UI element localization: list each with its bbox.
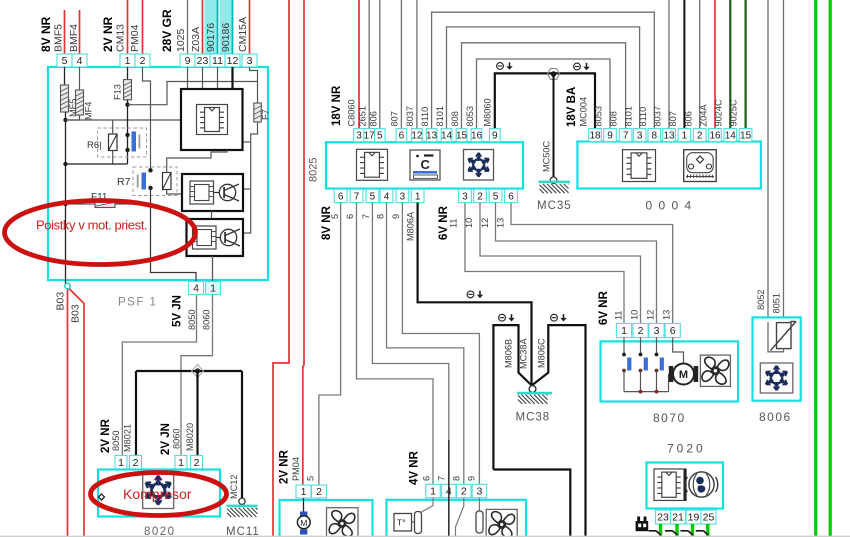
- wire pin2 to R7 contact: [143, 67, 151, 170]
- relay R6 dashed outline: [98, 128, 147, 157]
- svg-text:2: 2: [638, 325, 644, 337]
- fuse F7: [254, 103, 261, 122]
- svg-text:10: 10: [630, 310, 640, 320]
- svg-text:8110: 8110: [420, 107, 430, 127]
- pin 5 of 8025 top: [375, 129, 386, 142]
- svg-text:2: 2: [140, 55, 146, 67]
- highlight bar 90176: [205, 0, 218, 54]
- svg-text:8101: 8101: [624, 106, 634, 126]
- svg-text:1: 1: [682, 130, 688, 141]
- svg-text:2: 2: [133, 457, 139, 469]
- svg-text:F7: F7: [261, 109, 271, 120]
- svg-text:2: 2: [194, 457, 200, 469]
- svg-text:M8021: M8021: [123, 424, 133, 452]
- svg-text:1: 1: [125, 55, 131, 67]
- wire 13 from 8025 to 8070 pin6: [511, 203, 673, 324]
- svg-text:B03: B03: [55, 292, 67, 311]
- ground MC35 cyan bar: [539, 181, 571, 184]
- svg-text:MC50C: MC50C: [542, 140, 552, 172]
- relay R6 contact bar (blue): [132, 132, 137, 152]
- svg-text:0 0 0 4: 0 0 0 4: [646, 199, 693, 213]
- wire 11 from 8025 to 8070 pin1: [465, 203, 624, 324]
- component box 8020 compressor: [98, 470, 220, 517]
- wire 807 black into 0004 pin 1: [683, 0, 685, 129]
- wire PM04 red above pin 2: [142, 0, 144, 54]
- svg-text:1: 1: [210, 283, 216, 295]
- wire Z03A red above pin 23: [202, 0, 204, 54]
- pin 2 of 8025 bottom right: [474, 189, 487, 202]
- svg-text:6V NR: 6V NR: [598, 290, 610, 325]
- svg-text:807: 807: [668, 111, 678, 126]
- junction dot rail y120: [63, 118, 67, 122]
- pin 6 of 8025 bottom left: [334, 189, 347, 202]
- fan icon frame in 8070: [700, 355, 730, 386]
- pin 8 of 0004: [648, 129, 661, 142]
- contact column x=656.5 in 8070: [656, 338, 658, 355]
- wire bright green bus 1: [814, 0, 817, 537]
- fan icon frame in blower box: [327, 508, 359, 537]
- pin 9 of 0004: [604, 129, 617, 142]
- svg-text:12: 12: [646, 310, 656, 320]
- svg-text:8: 8: [376, 214, 386, 219]
- relay R7 contact fixed bar: [137, 175, 139, 188]
- pin 15 of 8025 top: [456, 129, 467, 142]
- pin 9 of 8025 top: [490, 129, 501, 142]
- svg-text:F13: F13: [113, 84, 123, 100]
- pin 4 of 8025 bottom left: [380, 189, 393, 202]
- svg-text:8006: 8006: [759, 410, 792, 424]
- temp sensor capsule: [415, 512, 422, 534]
- wire 8037b into 0004 pin 13: [668, 0, 670, 129]
- svg-text:90186: 90186: [220, 23, 232, 52]
- svg-text:6: 6: [670, 325, 676, 337]
- pin 6 of 8025 top: [396, 129, 407, 142]
- ground indicator for M806B: [499, 314, 515, 321]
- relay R7 coil: [163, 173, 172, 190]
- pin 2 of PSF1: [135, 54, 150, 67]
- pin 3 of 4V box: [472, 484, 487, 497]
- wire B03 red vertical left (from PSF1 pin 5 node): [67, 290, 69, 537]
- svg-text:9: 9: [492, 131, 498, 142]
- wire M8060/MC004 black nested link 8025 pin9 to 0004 pin18: [495, 73, 595, 128]
- pin 3 of 0004: [633, 129, 646, 142]
- driver box 1 in PSF1: [182, 174, 243, 211]
- component box 4V (cooling unit): [387, 500, 527, 537]
- pin 13 of 0004: [663, 129, 676, 142]
- wire M806B continuation to bottom fan: [493, 470, 570, 537]
- wire tap to driver box1 right: [244, 188, 251, 190]
- relay R7 contact bar (blue): [142, 173, 147, 190]
- wire 12 from 8025 to 8070 pin3: [496, 203, 657, 324]
- svg-text:M8020: M8020: [185, 423, 195, 451]
- pin 7 of 8025 bottom left: [350, 189, 363, 202]
- wire R6 contact bottom to rail: [66, 163, 128, 165]
- wire M806C black U-link: [532, 325, 586, 537]
- IC icon in 8025: [357, 149, 388, 180]
- svg-text:8037: 8037: [653, 106, 663, 126]
- svg-text:MC12: MC12: [229, 474, 239, 499]
- wire 8060 from pin1 to 8020 second pin1: [181, 295, 213, 456]
- svg-text:13: 13: [426, 131, 438, 142]
- contact bottom rail in 8070: [624, 391, 669, 393]
- annotation diamond marker: [99, 494, 105, 500]
- gauge icon in 0004: [684, 150, 717, 182]
- svg-text:2: 2: [461, 486, 467, 498]
- svg-text:12: 12: [411, 131, 423, 142]
- svg-text:MC35: MC35: [537, 200, 572, 212]
- svg-text:25: 25: [703, 512, 715, 524]
- wire pin2 inside box: [456, 498, 464, 537]
- ground indicator for MC004: [574, 63, 590, 70]
- svg-text:3: 3: [654, 325, 660, 337]
- pin 4 of 4V box: [442, 484, 457, 497]
- svg-text:7: 7: [623, 130, 629, 141]
- pin 4 of PSF1: [72, 54, 87, 67]
- component box 8070: [601, 341, 739, 401]
- ground MC35 terminal circle: [550, 177, 557, 184]
- pin 3 of 8025 bottom right: [459, 189, 472, 202]
- display icon in 8025: [410, 150, 440, 180]
- svg-text:3: 3: [476, 486, 482, 498]
- svg-text:808: 808: [609, 111, 619, 126]
- svg-text:4: 4: [193, 283, 199, 295]
- svg-text:8052: 8052: [756, 290, 766, 310]
- svg-text:7: 7: [437, 476, 447, 481]
- svg-text:5: 5: [62, 55, 68, 67]
- svg-text:7: 7: [354, 191, 360, 202]
- fan icon in 8070: [702, 357, 729, 384]
- svg-text:2: 2: [697, 130, 703, 141]
- motor terminal cap bottom (blue): [300, 529, 307, 534]
- wire R7 contact to pin 4 out: [151, 188, 197, 281]
- svg-text:1025: 1025: [175, 28, 187, 52]
- contact dots R7: [148, 168, 152, 172]
- wire 6 from 8025 pin7 to 4V pin1: [357, 203, 434, 485]
- wire BMF5 red above pin 5: [64, 10, 66, 54]
- svg-text:9025C: 9025C: [729, 99, 739, 126]
- pin 14 of 8025 top: [441, 129, 452, 142]
- pin 3 of 8025 top: [354, 129, 365, 142]
- wire 5 from 8025 pin6 to blower pin2: [319, 203, 341, 537]
- svg-text:C8060: C8060: [347, 99, 357, 126]
- svg-text:8V NR: 8V NR: [321, 205, 333, 240]
- svg-text:8053: 8053: [594, 106, 604, 126]
- svg-text:CM13: CM13: [115, 24, 127, 52]
- svg-text:28V GR: 28V GR: [160, 9, 174, 52]
- wire pin1 to motor: [303, 498, 305, 512]
- driver box 2 in PSF1: [187, 219, 244, 256]
- svg-text:4: 4: [77, 55, 83, 67]
- wire red bus A x=289 jog to x=273: [273, 0, 289, 537]
- wire CM13 red above pin 1: [127, 0, 129, 54]
- svg-text:MC38A: MC38A: [519, 337, 529, 369]
- pin 5 of 8025 bottom left: [366, 189, 379, 202]
- pin 6 of 8070: [665, 324, 680, 338]
- pin 25 of 7020: [701, 510, 716, 524]
- svg-text:MC38: MC38: [516, 412, 551, 424]
- pin 1 of blower box: [296, 485, 311, 498]
- wire green below pin 21: [675, 524, 678, 537]
- svg-text:PSF 1: PSF 1: [118, 297, 157, 309]
- wire 806 into 0004 pin 2: [699, 0, 701, 129]
- svg-text:2V JN: 2V JN: [160, 423, 172, 455]
- svg-text:4V NR: 4V NR: [408, 450, 420, 485]
- wire 7 from 8025 pin5 to 4V pin4: [372, 203, 448, 485]
- node MC50C junction on M8060 bus: [548, 69, 560, 80]
- pin 16 of 0004: [709, 129, 722, 142]
- contact dots R6: [125, 133, 129, 137]
- svg-text:2: 2: [316, 486, 322, 498]
- wire pin9 into control box: [187, 67, 189, 89]
- wire 2651 into 8025 pin 17: [368, 0, 370, 129]
- svg-text:2V NR: 2V NR: [101, 16, 115, 52]
- wire C8060 red into 8025 pin 3: [358, 0, 360, 129]
- wire 808 nested link 8025 pin15 to 0004 pin7: [462, 43, 626, 129]
- contact column x=624 in 8070: [623, 338, 625, 355]
- svg-text:8: 8: [652, 130, 658, 141]
- wire 8052 to thermistor bottom: [768, 322, 784, 352]
- svg-text:3: 3: [637, 130, 643, 141]
- pin 19 of 7020: [686, 510, 701, 524]
- wire R7 coil top to control box: [167, 150, 227, 173]
- svg-text:1: 1: [621, 325, 627, 337]
- pin 17 of 8025 top: [364, 129, 375, 142]
- svg-text:16: 16: [471, 131, 483, 142]
- wire driver box2 to pin 1 out: [212, 256, 214, 281]
- svg-text:8: 8: [452, 476, 462, 481]
- component box blower (bottom left): [280, 500, 373, 537]
- pin 2 of 8070: [633, 324, 648, 338]
- wire 90176 cyan above pin 11: [217, 0, 219, 54]
- svg-text:M8060: M8060: [483, 98, 493, 126]
- svg-text:1: 1: [415, 191, 421, 202]
- wire pin5 to fuse MF5: [64, 67, 66, 85]
- svg-text:23: 23: [197, 55, 209, 67]
- motor M in 8070: [669, 366, 674, 382]
- svg-text:8060: 8060: [202, 310, 212, 330]
- pin 1 of 8025 bottom left: [411, 189, 424, 202]
- svg-text:M806B: M806B: [504, 339, 514, 368]
- svg-text:8V NR: 8V NR: [39, 16, 53, 52]
- pin 1 of 8020 (right pair): [175, 456, 187, 470]
- svg-text:M806A: M806A: [406, 211, 416, 241]
- pin 21 of 7020: [671, 510, 686, 524]
- pin 9 of PSF1: [180, 54, 195, 67]
- pin 13 of 8025 top: [426, 129, 437, 142]
- ground MC11 hatching: [227, 508, 258, 517]
- ground MC38 cyan bar: [517, 392, 552, 395]
- svg-text:MF4: MF4: [84, 102, 94, 120]
- junction dot rail y164: [63, 162, 67, 166]
- svg-text:8060: 8060: [172, 429, 182, 449]
- svg-text:BMF5: BMF5: [53, 24, 65, 52]
- driver box1 inner ic: [190, 181, 214, 204]
- svg-text:15: 15: [456, 131, 468, 142]
- svg-text:806: 806: [369, 111, 379, 126]
- svg-text:807: 807: [390, 111, 400, 126]
- wire B03 red diagonal branch: [69, 289, 84, 537]
- wire tap to control box right: [243, 141, 251, 143]
- driver box1 transistor: [214, 192, 220, 194]
- svg-text:18V NR: 18V NR: [331, 85, 343, 126]
- svg-text:Z03A: Z03A: [190, 27, 202, 52]
- pin 1 of 0004: [678, 129, 691, 142]
- wire MC12 down to ground MC11: [241, 371, 243, 499]
- wire rail to R6 coil and control box (y=120): [66, 119, 182, 121]
- snowflake icon in 8020: [146, 476, 171, 505]
- pin 5 of 8025 bottom right: [489, 189, 502, 202]
- driver box2 transistor: [216, 237, 220, 239]
- svg-text:MC004: MC004: [579, 97, 589, 127]
- svg-text:23: 23: [657, 512, 669, 524]
- wire M8020 black from 8020 second pin2: [196, 371, 198, 456]
- wire pin4 to fuse MF4: [79, 67, 81, 90]
- svg-text:16: 16: [709, 130, 721, 141]
- component box 8006: [753, 317, 801, 400]
- svg-text:8101: 8101: [435, 106, 445, 126]
- pin 2 of 8020 (right pair): [191, 456, 203, 470]
- svg-text:19: 19: [688, 512, 700, 524]
- svg-text:9: 9: [391, 214, 401, 219]
- wire 806 into 8025 pin 5: [379, 0, 381, 129]
- svg-text:9: 9: [467, 476, 477, 481]
- svg-text:5: 5: [306, 476, 316, 481]
- wire 807 into 8025 pin 6: [400, 0, 402, 129]
- pin 3 of 8070: [649, 324, 664, 338]
- svg-text:11: 11: [212, 55, 223, 67]
- svg-text:12: 12: [227, 55, 239, 67]
- wire green below pin 19: [691, 524, 694, 537]
- ground MC11 terminal circle: [239, 498, 245, 504]
- wire R6 coil bottom: [112, 151, 114, 165]
- svg-text:R6|: R6|: [87, 140, 102, 151]
- wire red bus B x=304 (PM04 feed): [303, 0, 304, 485]
- wire F7 output riser down: [243, 122, 258, 233]
- annotation ellipse Kompresor: [91, 473, 227, 516]
- svg-text:Kompresor: Kompresor: [123, 486, 192, 502]
- snowflake icon in 8006: [766, 366, 787, 391]
- svg-text:8053: 8053: [465, 106, 475, 126]
- wire F13 junction to F7 riser: [128, 82, 258, 105]
- svg-text:7: 7: [361, 214, 371, 219]
- wire M806A black from 8025 pin1: [418, 203, 532, 385]
- svg-text:2651: 2651: [358, 106, 368, 126]
- pin 2 of blower box: [312, 485, 327, 498]
- fan icon frame in 4V box: [486, 509, 517, 537]
- pin 18 of 0004: [589, 129, 602, 142]
- svg-text:CM15A: CM15A: [237, 17, 249, 52]
- svg-text:2V NR: 2V NR: [278, 449, 290, 484]
- wire 90186 cyan above pin 12: [232, 0, 234, 54]
- ground MC35 hatching: [540, 184, 569, 193]
- pin 15 of 0004: [739, 129, 752, 142]
- pin 3 of PSF1: [242, 54, 257, 67]
- fuse MF4: [76, 90, 84, 115]
- highlight bar 90186: [220, 0, 233, 54]
- svg-text:3: 3: [356, 131, 362, 142]
- svg-text:6: 6: [345, 214, 355, 219]
- pin 1 of 4V box: [426, 484, 441, 497]
- fuse F11: [95, 201, 115, 208]
- svg-text:Poistky v mot. priest.: Poistky v mot. priest.: [36, 218, 147, 233]
- wire 8051 gray to 8006 thermistor: [783, 0, 785, 323]
- svg-text:MC11: MC11: [226, 526, 260, 537]
- wire pin11 into control box: [217, 67, 219, 89]
- svg-text:14: 14: [441, 131, 453, 142]
- svg-text:13: 13: [495, 218, 505, 228]
- contact column x=640.5 in 8070: [640, 338, 642, 355]
- svg-text:18: 18: [589, 130, 601, 141]
- svg-text:17: 17: [364, 131, 376, 142]
- svg-text:BMF4: BMF4: [68, 24, 80, 52]
- svg-text:13: 13: [662, 310, 672, 320]
- control module box in PSF1: [181, 89, 243, 150]
- svg-text:806: 806: [684, 111, 694, 126]
- pin 5 of PSF1: [57, 54, 72, 67]
- wire 8050 from pin4 to 8020 pin1: [122, 295, 196, 456]
- ground indicator for M8060: [497, 62, 513, 69]
- wire F13 down through R6 contact: [127, 100, 129, 164]
- wire R6 coil top to y120 rail: [112, 120, 114, 134]
- svg-text:8050: 8050: [111, 431, 121, 451]
- wire BMF4 red above pin 4: [79, 10, 81, 54]
- ground MC38 hatching: [518, 395, 548, 404]
- thermistor capsule under pin3: [478, 498, 480, 511]
- wire 9 from 8025 pin3 to 4V pin3: [402, 203, 479, 485]
- junction dot F13 out: [125, 103, 129, 107]
- wire 8053 nested link 8025 pin16 to 0004 pin9: [477, 59, 611, 129]
- svg-text:15: 15: [740, 130, 752, 141]
- svg-text:8037: 8037: [405, 106, 415, 126]
- pin 2 of 4V box: [457, 484, 472, 497]
- svg-text:9: 9: [185, 55, 191, 67]
- svg-text:8051: 8051: [772, 293, 782, 313]
- fan icon in blower box: [329, 511, 355, 537]
- ground MC11 cyan bar: [227, 505, 258, 508]
- wire R7 coil bottom to driver box1: [167, 190, 182, 195]
- svg-text:8020: 8020: [144, 526, 176, 537]
- pin 23 of PSF1: [195, 54, 210, 67]
- wire green below pin 23: [659, 524, 662, 537]
- wire 8101 nested link 8025 pin14 to 0004 pin3: [447, 27, 640, 129]
- svg-text:2: 2: [477, 191, 483, 202]
- svg-text:3: 3: [462, 191, 468, 202]
- wire 8 from 8025 pin4 to 4V pin2: [387, 203, 464, 485]
- svg-text:8050: 8050: [187, 310, 197, 330]
- node diamond on ground bus: [192, 365, 204, 378]
- wire Z04A red into 0004 pin 16: [714, 0, 716, 129]
- wire pin1 to fuse F13: [127, 67, 129, 80]
- svg-text:5V JN: 5V JN: [171, 295, 183, 327]
- pin 2 of 8020 (left pair): [130, 456, 142, 470]
- wire CM15A red above pin 3: [249, 0, 251, 54]
- pin 6 of 8025 bottom right: [505, 189, 518, 202]
- pin 12 of 8025 top: [412, 129, 423, 142]
- wire 10 from 8025 to 8070 pin2: [480, 203, 641, 324]
- component box 0004: [577, 142, 761, 189]
- component box 8025: [326, 142, 523, 188]
- relay R7 dashed outline: [133, 167, 177, 196]
- wire 8052 gray to 8006: [768, 0, 784, 352]
- svg-text:5: 5: [330, 214, 340, 219]
- snowflake icon in 8025: [468, 153, 489, 177]
- pin 16 of 8025 top: [471, 129, 482, 142]
- wire pin12 black into control box: [231, 67, 233, 89]
- battery BE icon: [637, 517, 640, 522]
- ground indicator for M806A: [467, 291, 483, 298]
- svg-text:1: 1: [430, 486, 436, 498]
- svg-text:13: 13: [663, 130, 675, 141]
